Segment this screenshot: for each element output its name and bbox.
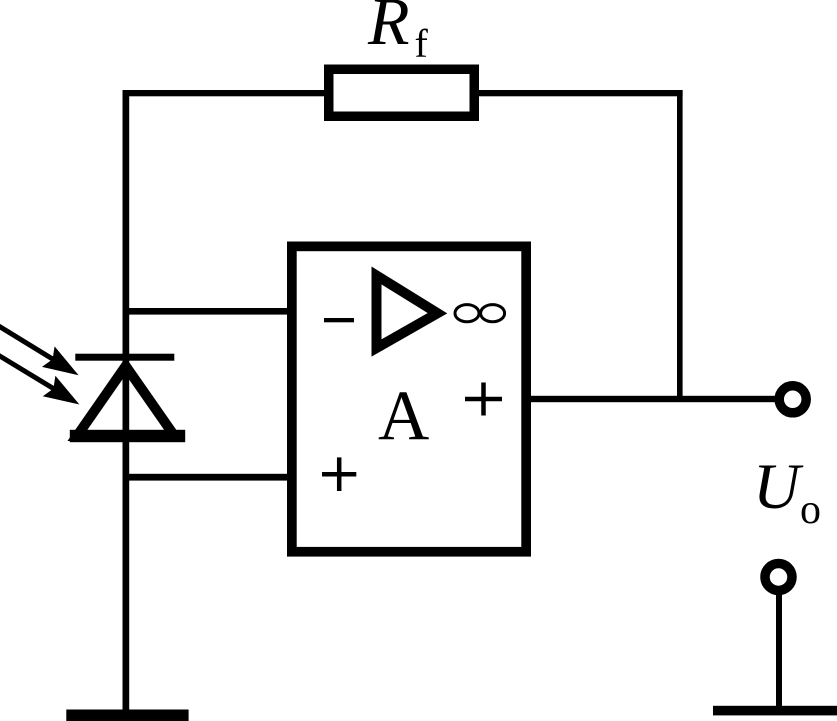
svg-text:U: U [753,451,804,523]
svg-text:f: f [415,21,429,66]
svg-text:R: R [367,0,410,59]
svg-text:o: o [800,487,821,533]
svg-text:A: A [378,377,429,455]
